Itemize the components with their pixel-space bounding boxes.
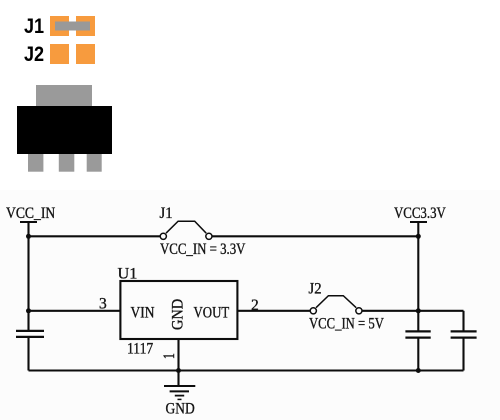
svg-text:VCC3.3V: VCC3.3V [394,205,446,222]
svg-text:1: 1 [160,353,177,359]
svg-text:VCC_IN = 5V: VCC_IN = 5V [309,315,385,332]
svg-text:J2: J2 [309,281,322,297]
svg-text:VIN: VIN [131,305,155,322]
svg-text:VCC_IN: VCC_IN [6,205,56,222]
svg-text:VCC_IN = 3.3V: VCC_IN = 3.3V [160,241,246,258]
svg-text:J2: J2 [24,43,44,67]
svg-text:J1: J1 [160,206,173,222]
svg-text:U1: U1 [118,266,138,283]
svg-text:GND: GND [170,299,187,330]
svg-text:GND: GND [166,401,195,418]
svg-text:3: 3 [99,296,107,313]
svg-text:2: 2 [251,297,259,314]
svg-text:VOUT: VOUT [194,304,230,321]
svg-text:J1: J1 [24,15,44,39]
svg-text:1117: 1117 [127,341,153,358]
